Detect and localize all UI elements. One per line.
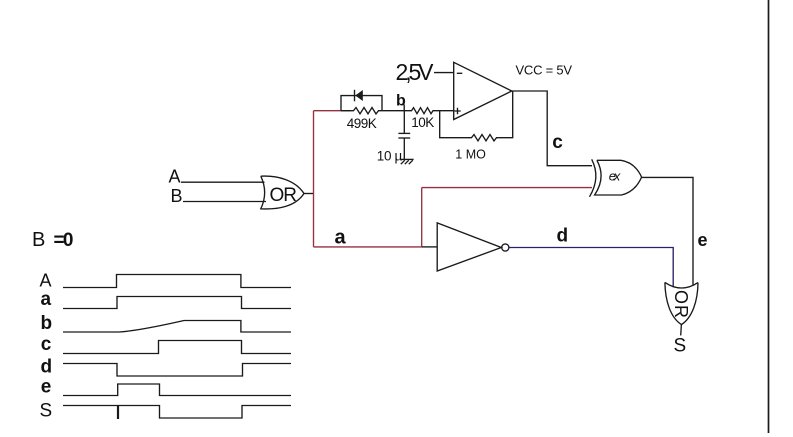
svg-text:b: b <box>41 313 53 334</box>
wire op-amp output to XOR top input <box>512 91 592 166</box>
op-amp U1 minus sign <box>457 72 463 74</box>
svg-text:a: a <box>41 289 52 310</box>
timing trace c <box>63 341 291 354</box>
node b junction tick <box>403 105 405 111</box>
xor gate extra input arc <box>590 159 596 197</box>
wire red vertical to XOR <box>421 188 423 247</box>
op-amp U1 <box>454 62 512 119</box>
or-gate OR1 <box>261 176 304 209</box>
svg-text:S: S <box>40 401 53 422</box>
wire input B <box>183 201 266 203</box>
svg-text:=0: =0 <box>54 230 74 251</box>
svg-text:499K: 499K <box>347 116 377 131</box>
svg-text:c: c <box>552 132 563 153</box>
wire node a to inverter <box>422 246 438 248</box>
wire XOR output to bottom OR (node e) <box>642 177 693 285</box>
diode D1 branch wires <box>341 96 382 111</box>
svg-text:10 µ: 10 µ <box>377 149 403 164</box>
timing trace S <box>63 406 291 419</box>
op-amp U1 plus sign <box>454 108 460 114</box>
svg-text:B: B <box>32 229 45 251</box>
or-gate OR2 (bottom, pointing down) <box>665 282 698 324</box>
wire red node a horizontal <box>314 246 422 248</box>
wire red XOR lower input <box>422 187 592 189</box>
resistor 10K <box>404 108 453 114</box>
capacitor C1 top wire <box>403 111 405 134</box>
svg-text:A: A <box>40 270 52 290</box>
diode D1 cathode bar <box>354 90 356 102</box>
wire input A <box>181 181 265 183</box>
svg-text:a: a <box>335 226 347 248</box>
inverter U2 triangle <box>437 223 501 271</box>
timing trace A <box>63 275 291 288</box>
svg-text:10K: 10K <box>411 115 434 130</box>
diode D1 triangle <box>355 90 363 101</box>
svg-text:e: e <box>41 377 52 398</box>
timing trace a <box>63 297 291 309</box>
svg-text:1 MO: 1 MO <box>455 148 486 162</box>
timing trace b <box>63 321 291 333</box>
svg-text:c: c <box>41 334 52 355</box>
wire red vertical from OR1 <box>313 111 315 247</box>
wire 2,5V to op-amp <box>434 72 454 74</box>
xor gate body <box>595 160 642 195</box>
capacitor C1 plate 2 <box>398 137 410 139</box>
svg-text:OR: OR <box>270 185 298 206</box>
svg-text:OR: OR <box>671 290 691 318</box>
resistor 1MO feedback <box>440 91 513 141</box>
page border vertical line <box>768 0 770 433</box>
wire red top horizontal <box>314 110 352 112</box>
inverter U2 bubble <box>502 244 509 251</box>
svg-text:ex: ex <box>609 169 621 184</box>
svg-text:d: d <box>557 225 569 246</box>
svg-text:VCC = 5V: VCC = 5V <box>516 62 573 77</box>
capacitor C1 bottom wire <box>403 138 405 159</box>
wire OR1 output stub <box>304 193 314 195</box>
svg-text:d: d <box>41 356 53 377</box>
svg-text:2,5V: 2,5V <box>396 59 435 85</box>
timing trace S glitch tick <box>117 406 119 420</box>
wire OR2 output stub <box>680 325 683 336</box>
ground symbol <box>400 159 413 164</box>
svg-text:A: A <box>169 167 181 187</box>
wire inverter output node d (blue) <box>509 248 673 288</box>
svg-text:B: B <box>171 186 183 206</box>
svg-text:e: e <box>698 230 708 250</box>
capacitor C1 plate 1 <box>398 132 410 134</box>
timing trace d <box>63 364 291 377</box>
timing trace e <box>63 384 291 396</box>
resistor 499K <box>341 108 404 114</box>
svg-text:S: S <box>674 335 687 356</box>
